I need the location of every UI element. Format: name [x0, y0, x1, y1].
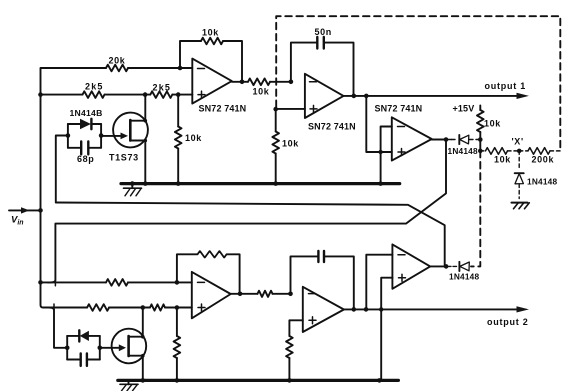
svg-text:2k5: 2k5	[85, 82, 104, 92]
svg-text:output 2: output 2	[487, 317, 529, 327]
svg-text:68p: 68p	[77, 154, 94, 164]
op-amp U6	[392, 244, 430, 288]
wire: U6 plus to ground bar	[381, 278, 392, 379]
wire: U2 plus input	[276, 108, 305, 110]
wire: combo2 left link up to plus row	[47, 308, 67, 348]
transistor Q2 gate	[100, 347, 122, 349]
op-amp U2 triangle	[305, 74, 344, 118]
svg-text:200k: 200k	[532, 155, 555, 165]
node: 10k tap on 2k5 row	[176, 92, 181, 97]
ground bar upper	[121, 182, 400, 185]
transistor Q1 drain	[130, 96, 145, 121]
resistor 10k vertical U2	[275, 109, 277, 131]
svg-text:10k: 10k	[253, 87, 270, 97]
svg-text:10k: 10k	[494, 155, 511, 165]
wire: U4 output row	[231, 293, 258, 295]
input Vin	[9, 209, 41, 211]
wire: 20k row to op-amp U1 minus input	[128, 67, 192, 69]
wire: U3 plus from output1 row	[366, 96, 392, 152]
wire: U5 plus to ground	[289, 320, 302, 336]
capacitor C 50n	[317, 37, 324, 49]
node: bus/2k5	[38, 92, 43, 97]
op-amp U1	[192, 59, 232, 104]
+15V supply branch	[479, 106, 481, 111]
svg-text:output 1: output 1	[485, 81, 527, 91]
svg-text:10k: 10k	[282, 139, 299, 149]
op-amp U2 with capacitor 50n feedback	[289, 80, 294, 85]
node: feedback tap U1	[178, 66, 183, 71]
resistor 10k pull-up	[477, 110, 484, 132]
svg-text:+15V: +15V	[453, 104, 475, 114]
svg-text:10k: 10k	[185, 133, 202, 143]
wire: U3 minus to ground bar	[381, 127, 392, 184]
transistor Q2 circle	[112, 329, 147, 364]
wire: U1 output row	[232, 81, 248, 83]
op-amp U5	[303, 287, 344, 332]
wire: lower plus row	[87, 304, 109, 311]
svg-text:10k: 10k	[202, 28, 219, 38]
capacitor feedback U5	[291, 256, 318, 293]
transistor Q1 gate wire + arrow	[101, 135, 124, 137]
resistor 2k5 second	[150, 91, 172, 98]
wire: output 1 row	[344, 95, 517, 97]
svg-text:1N4148: 1N4148	[448, 146, 478, 156]
dashed feedback selection box	[276, 16, 560, 151]
svg-text:1N4148: 1N4148	[527, 177, 557, 187]
wire A: to op-amp U6 output (crossover)	[56, 203, 445, 267]
wire: main input bus x=40.5 with 20k row corner	[41, 68, 107, 308]
svg-text:50n: 50n	[315, 27, 332, 37]
ground symbol lower	[128, 382, 130, 384]
op-amp U3	[392, 117, 432, 160]
svg-text:'X': 'X'	[512, 137, 524, 147]
ground bar lower	[118, 379, 399, 382]
transistor Q2 source	[129, 356, 143, 379]
dashed 'X' row: 10k + 200k	[480, 148, 560, 155]
transistor Q1 channel bar	[129, 120, 132, 141]
svg-text:2k5: 2k5	[153, 83, 172, 93]
wire: U6 output	[430, 265, 446, 267]
transistor Q2 drain	[129, 309, 143, 337]
wire: output 2 row	[344, 308, 517, 310]
svg-text:1N4148: 1N4148	[449, 272, 479, 282]
wire: U6 minus from output2 row	[366, 255, 392, 310]
dashed wire down right side to D4	[471, 151, 480, 267]
transistor Q1 T1S73 circle	[113, 113, 148, 148]
wire: 2k5 row	[41, 94, 83, 96]
ground symbol upper	[131, 185, 133, 188]
svg-text:SN72741N: SN72741N	[308, 122, 356, 132]
wire B: U3 output to lower minus row (crossover)	[48, 140, 447, 283]
svg-text:10k: 10k	[484, 119, 501, 129]
ground (X node)	[512, 203, 530, 209]
svg-text:Vin: Vin	[11, 215, 24, 227]
node: JFET drain on 2k5 row	[143, 92, 148, 97]
transistor Q1 source	[130, 141, 145, 184]
resistor R 20k	[106, 65, 128, 72]
diode D2 1N4148 dashed horizontal	[446, 135, 479, 144]
svg-text:SN72741N: SN72741N	[199, 104, 247, 114]
wire: lower minus row	[41, 281, 107, 283]
node: U1 output	[240, 80, 245, 85]
diode D4 1N4148 dashed at U6 output	[446, 262, 469, 271]
svg-text:SN72741N: SN72741N	[375, 104, 423, 114]
diode D3 1N4148 dashed vertical to ground	[515, 151, 524, 199]
feedback resistor U4	[177, 254, 198, 282]
resistor 10k vertical U1	[177, 95, 179, 127]
wire+resistor 10k feedback U1	[180, 41, 201, 68]
diode D5 + capacitor combo lower	[67, 336, 100, 360]
resistor 10k series	[248, 79, 270, 86]
svg-text:20k: 20k	[109, 56, 126, 66]
svg-text:T1S73: T1S73	[109, 153, 139, 163]
svg-text:1N414B: 1N414B	[70, 108, 103, 118]
resistor 10k vertical U4	[176, 308, 178, 337]
op-amp U4	[192, 272, 231, 318]
wire: combo left link down to crossover wire A	[56, 136, 68, 203]
diode D1 1N414B + capacitor 68p parallel combo	[68, 124, 101, 148]
wire: U3 output	[432, 139, 446, 141]
resistor 2k5 first	[83, 91, 105, 98]
